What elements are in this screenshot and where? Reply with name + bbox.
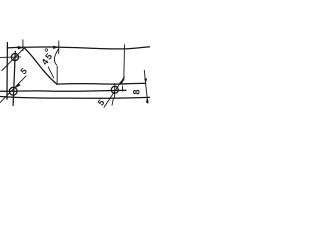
svg-text:8: 8 xyxy=(131,89,141,94)
